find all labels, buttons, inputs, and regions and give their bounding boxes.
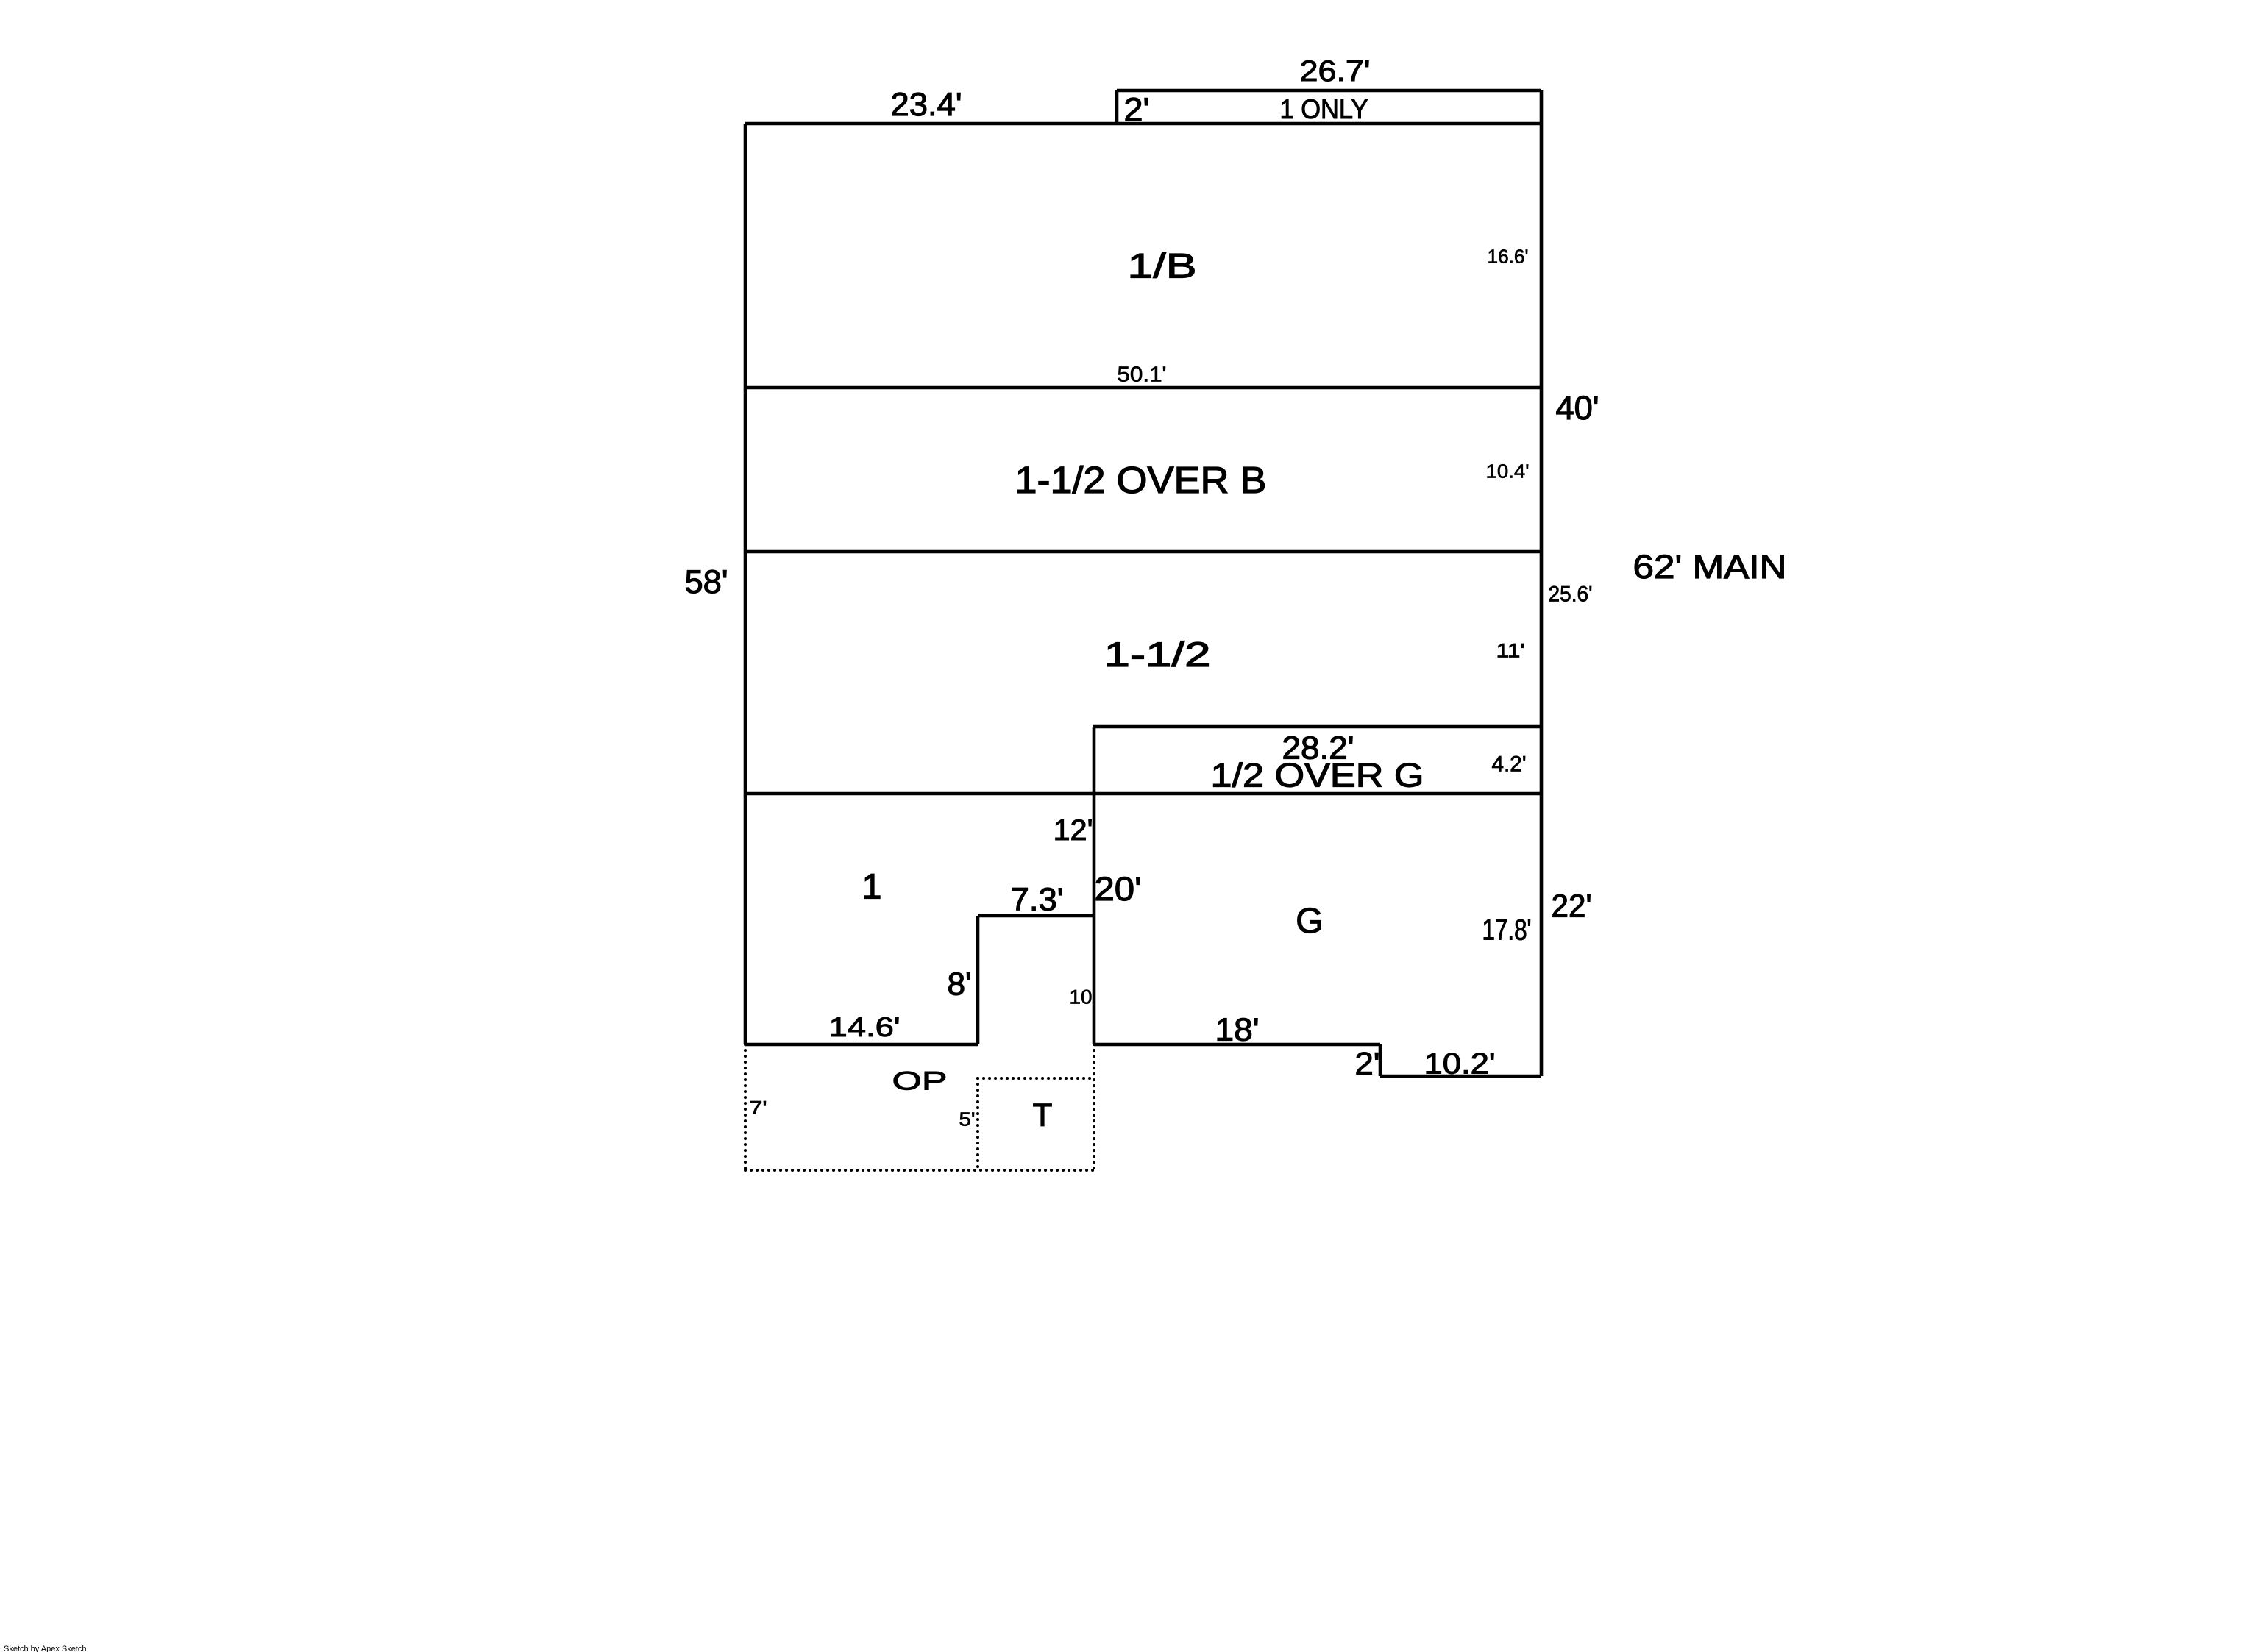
- svg-text:62' MAIN: 62' MAIN: [1633, 548, 1787, 585]
- svg-text:12': 12': [1054, 814, 1093, 847]
- dotted edge: OP porch bottom edge: [745, 1169, 1094, 1172]
- svg-text:8': 8': [948, 966, 972, 1003]
- svg-text:22': 22': [1552, 889, 1592, 925]
- wall: 1-1/2-over-B bottom wall: [745, 550, 1541, 554]
- wall: one-only-box top wall: [1117, 89, 1541, 93]
- svg-text:11': 11': [1496, 640, 1525, 662]
- wall: main top wall: [745, 122, 1541, 126]
- wall: right wall: [1540, 90, 1544, 1076]
- wall: left wall: [744, 124, 747, 1044]
- wall: 2 step wall: [1379, 1044, 1382, 1076]
- svg-text:T: T: [1033, 1097, 1053, 1133]
- wall: 7.3 step wall: [978, 914, 1094, 918]
- svg-text:2': 2': [1355, 1047, 1380, 1081]
- wall: 14.6 bottom wall: [745, 1043, 978, 1047]
- wall: 8 step wall: [976, 916, 980, 1044]
- svg-text:OP: OP: [892, 1067, 948, 1096]
- svg-text:7': 7': [750, 1099, 767, 1119]
- dotted edge: OP porch left edge: [744, 1044, 747, 1170]
- svg-text:G: G: [1296, 901, 1324, 941]
- wall: 1/2-over-G top wall: [1093, 725, 1541, 729]
- svg-text:58': 58': [685, 564, 728, 600]
- svg-text:1 ONLY: 1 ONLY: [1280, 94, 1368, 124]
- svg-text:20': 20': [1095, 870, 1142, 908]
- svg-text:10: 10: [1070, 986, 1093, 1008]
- svg-text:1-1/2: 1-1/2: [1104, 635, 1211, 674]
- svg-text:10.4': 10.4': [1486, 460, 1530, 483]
- svg-text:14.6': 14.6': [829, 1012, 901, 1042]
- svg-text:1/2 OVER G: 1/2 OVER G: [1211, 757, 1424, 794]
- wall: main interior wall: [745, 792, 1541, 796]
- wall: garage divider wall: [1093, 727, 1096, 1044]
- wall: 18 garage bottom wall: [1094, 1043, 1380, 1047]
- dotted edge: T deck left edge: [976, 1078, 979, 1170]
- svg-text:1-1/2 OVER B: 1-1/2 OVER B: [1015, 458, 1267, 501]
- svg-text:5': 5': [959, 1108, 976, 1131]
- svg-text:4.2': 4.2': [1492, 752, 1527, 777]
- svg-text:1: 1: [862, 867, 882, 907]
- svg-text:2': 2': [1124, 92, 1150, 128]
- svg-text:17.8': 17.8': [1482, 914, 1532, 947]
- svg-text:25.6': 25.6': [1549, 583, 1593, 607]
- svg-text:26.7': 26.7': [1300, 55, 1371, 88]
- svg-text:Sketch by Apex Sketch: Sketch by Apex Sketch: [4, 1645, 87, 1652]
- wall: 50.1 interior wall: [745, 386, 1541, 390]
- svg-text:18': 18': [1215, 1012, 1260, 1048]
- svg-text:1/B: 1/B: [1128, 247, 1197, 285]
- svg-text:40': 40': [1556, 389, 1599, 427]
- svg-text:7.3': 7.3': [1011, 882, 1064, 918]
- svg-text:16.6': 16.6': [1488, 246, 1529, 268]
- wall: 10.2 garage bottom wall: [1380, 1075, 1541, 1078]
- svg-text:10.2': 10.2': [1424, 1048, 1496, 1080]
- dotted edge: T deck top edge: [978, 1077, 1094, 1080]
- wall: one-only-box left wall: [1115, 90, 1119, 124]
- svg-text:23.4': 23.4': [891, 87, 962, 123]
- dotted edge: OP/T right edge: [1093, 1044, 1095, 1170]
- svg-text:50.1': 50.1': [1118, 363, 1167, 387]
